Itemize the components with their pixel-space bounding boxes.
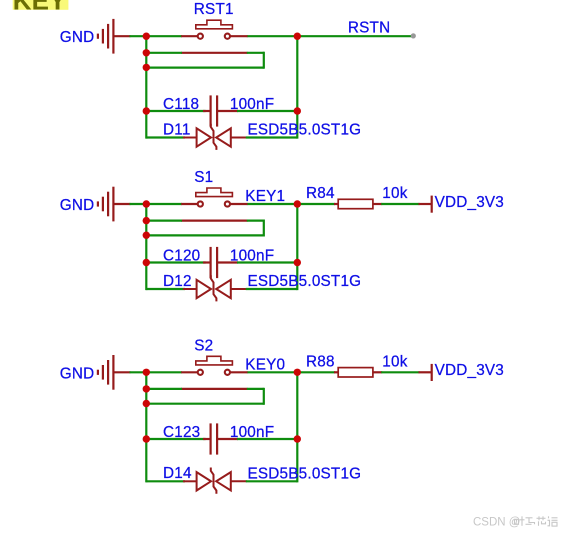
svg-text:R88: R88 — [306, 354, 335, 371]
wire row2 left — [146, 388, 182, 390]
svg-text:KEY0: KEY0 — [245, 356, 285, 373]
wire row2 right — [247, 52, 264, 54]
wire left column — [145, 36, 147, 138]
svg-text:KEY1: KEY1 — [245, 188, 285, 205]
wire diode row left — [146, 288, 185, 290]
wire left column — [145, 204, 147, 290]
junction left cap — [143, 435, 150, 442]
wire cap row left — [146, 261, 205, 263]
wire switch row left — [146, 203, 182, 205]
svg-text:100nF: 100nF — [230, 424, 274, 441]
svg-text:10k: 10k — [382, 354, 407, 371]
svg-text:R84: R84 — [306, 185, 335, 202]
wire cap row right — [237, 110, 297, 112]
wire junction to resistor — [297, 371, 335, 373]
junction left row3 — [143, 232, 150, 239]
svg-text:ESD5B5.0ST1G: ESD5B5.0ST1G — [248, 466, 362, 483]
svg-text:KEY: KEY — [13, 0, 66, 16]
svg-text:S1: S1 — [194, 169, 213, 186]
wire row2 left — [146, 52, 182, 54]
svg-text:VDD_3V3: VDD_3V3 — [435, 194, 504, 211]
svg-text:C120: C120 — [163, 248, 200, 265]
junction right cap — [294, 435, 301, 442]
wire GND to junction — [130, 371, 147, 373]
push button S2 — [181, 356, 247, 389]
wire row2 left — [146, 220, 182, 222]
wire loop right vertical — [263, 388, 265, 405]
svg-text:D14: D14 — [163, 465, 192, 482]
junction right cap — [294, 107, 301, 114]
junction left main — [143, 200, 150, 207]
wire diode row left — [146, 480, 185, 482]
svg-text:100nF: 100nF — [230, 248, 274, 265]
wire right column — [296, 204, 298, 290]
svg-text:D11: D11 — [163, 121, 191, 138]
sheet title KEY (highlighted, cut off) — [13, 0, 69, 10]
wire switch row right — [247, 35, 297, 37]
svg-text:10k: 10k — [382, 185, 407, 202]
wire cap row left — [146, 438, 205, 440]
wire cap row right — [237, 438, 297, 440]
wire row3 — [146, 234, 263, 236]
wire cap row left — [146, 110, 205, 112]
ground symbol — [98, 19, 131, 54]
junction right main — [294, 200, 301, 207]
wire GND to junction — [130, 35, 147, 37]
svg-text:RST1: RST1 — [194, 1, 234, 18]
wire junction to resistor — [297, 203, 335, 205]
wire switch row left — [146, 371, 182, 373]
wire diode row left — [146, 136, 185, 138]
wire row2 right — [247, 220, 264, 222]
svg-text:D12: D12 — [163, 273, 192, 290]
svg-text:GND: GND — [60, 29, 95, 46]
dangling endpoint — [411, 33, 416, 38]
junction left row3 — [143, 400, 150, 407]
TVS diode D14 — [183, 468, 247, 494]
wire row3 — [146, 403, 263, 405]
power symbol VDD_3V3 — [419, 196, 432, 213]
TVS diode D12 — [183, 275, 247, 301]
junction right main — [294, 33, 301, 40]
junction left row2 — [143, 49, 150, 56]
wire right column — [296, 36, 298, 138]
wire resistor to VDD — [381, 371, 419, 373]
power symbol VDD_3V3 — [419, 364, 432, 381]
junction left row2 — [143, 217, 150, 224]
svg-text:ESD5B5.0ST1G: ESD5B5.0ST1G — [248, 122, 362, 139]
wire switch row right — [247, 203, 297, 205]
ground symbol — [98, 187, 131, 222]
svg-text:VDD_3V3: VDD_3V3 — [435, 362, 504, 379]
resistor R84 — [334, 199, 382, 208]
wire GND to junction — [130, 203, 147, 205]
svg-text:C123: C123 — [163, 424, 200, 441]
resistor R88 — [334, 368, 382, 377]
wire left column — [145, 372, 147, 482]
capacitor C120 — [203, 247, 238, 278]
junction left row3 — [143, 64, 150, 71]
junction right cap — [294, 259, 301, 266]
wire row2 right — [247, 388, 264, 390]
ground symbol — [98, 355, 131, 390]
junction right main — [294, 369, 301, 376]
wire loop right vertical — [263, 52, 265, 69]
wire right column — [296, 372, 298, 482]
wire resistor to VDD — [381, 203, 419, 205]
svg-text:ESD5B5.0ST1G: ESD5B5.0ST1G — [248, 273, 362, 290]
junction left row2 — [143, 385, 150, 392]
wire cap row right — [237, 261, 297, 263]
wire loop right vertical — [263, 220, 265, 237]
junction left main — [143, 33, 150, 40]
TVS diode D11 — [183, 124, 247, 150]
svg-text:100nF: 100nF — [230, 96, 274, 113]
wire switch row left — [146, 35, 182, 37]
wire row3 — [146, 66, 263, 68]
push button RST1 — [181, 20, 247, 53]
junction left cap — [143, 107, 150, 114]
svg-text:S2: S2 — [194, 337, 213, 354]
capacitor C123 — [203, 423, 238, 454]
wire diode row right — [246, 288, 297, 290]
capacitor C118 — [203, 95, 238, 126]
svg-text:C118: C118 — [163, 96, 199, 113]
wire diode row right — [246, 480, 297, 482]
svg-text:CSDN @: CSDN @ — [473, 516, 520, 528]
wire diode row right — [246, 136, 297, 138]
svg-text:GND: GND — [60, 365, 95, 382]
wire to RSTN — [297, 35, 412, 37]
svg-text:RSTN: RSTN — [348, 20, 390, 37]
push button S1 — [181, 188, 247, 221]
junction left main — [143, 369, 150, 376]
junction left cap — [143, 259, 150, 266]
wire switch row right — [247, 371, 297, 373]
svg-text:GND: GND — [60, 197, 95, 214]
